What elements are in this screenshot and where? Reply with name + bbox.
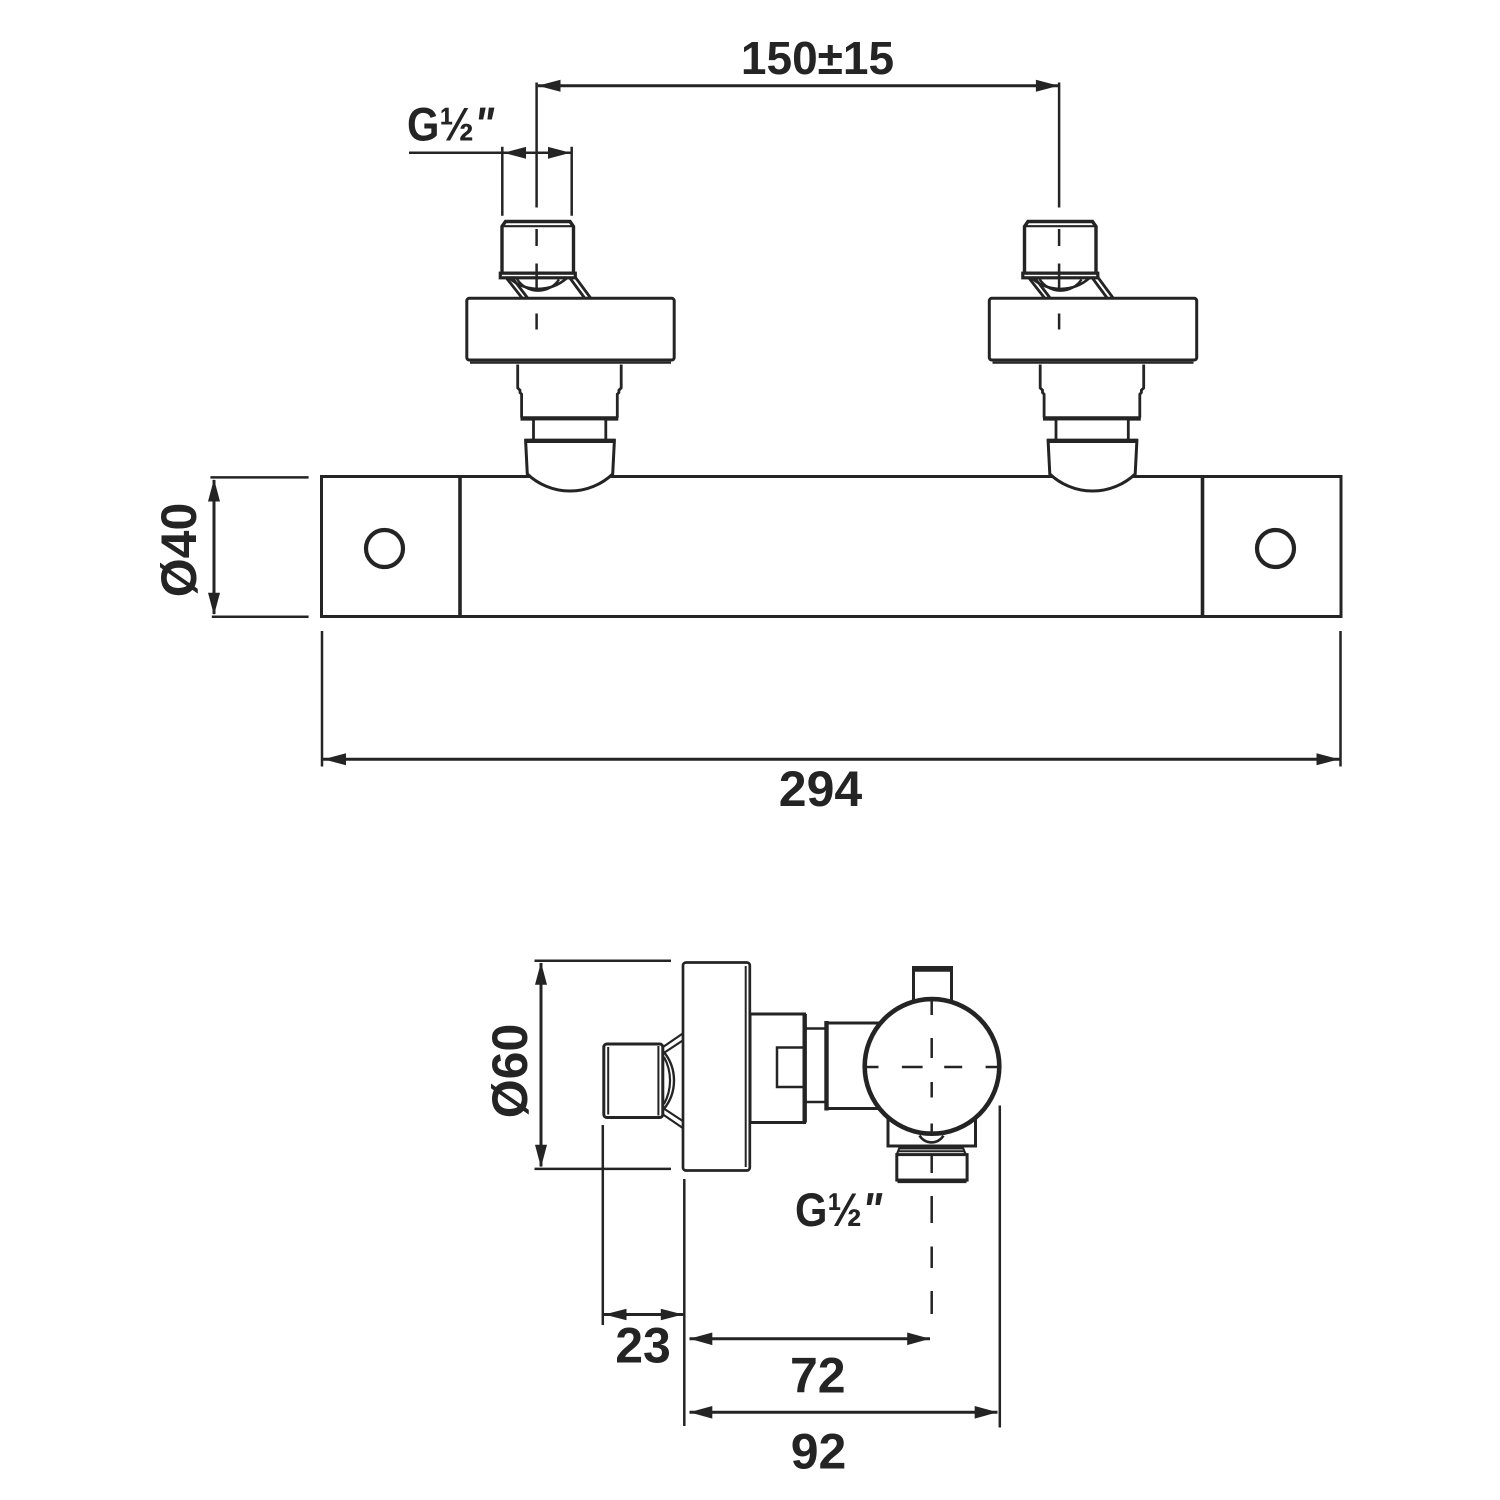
svg-text:Ø40: Ø40 bbox=[151, 503, 207, 598]
dimension 72 bbox=[690, 1333, 931, 1404]
right inlet connector assembly bbox=[989, 83, 1196, 492]
left end-cap divider bbox=[458, 478, 462, 615]
bar body (front view, 294mm bar) bbox=[322, 477, 1342, 617]
dimension G1/2 top bbox=[407, 98, 572, 216]
neck between body and valve block bbox=[805, 1027, 826, 1030]
dimension Ø60 bbox=[482, 961, 671, 1169]
svg-text:294: 294 bbox=[779, 761, 863, 817]
cone and ball joint side view bbox=[663, 1033, 684, 1047]
left inlet connector assembly bbox=[467, 83, 674, 492]
right end-cap divider bbox=[1201, 478, 1205, 615]
side nut bbox=[604, 1044, 663, 1118]
ball joint arcs bbox=[509, 278, 568, 289]
svg-text:G½": G½" bbox=[407, 98, 495, 151]
svg-text:Ø60: Ø60 bbox=[482, 1024, 538, 1119]
centerline dashes bbox=[535, 229, 538, 246]
150 dim extension line bbox=[535, 83, 538, 208]
svg-text:23: 23 bbox=[615, 1318, 671, 1374]
knob top button bbox=[914, 968, 952, 1002]
outlet chamfer band bbox=[900, 1147, 962, 1150]
cone slant lines right bbox=[570, 278, 586, 299]
svg-text:92: 92 bbox=[791, 1424, 847, 1480]
wall flange bbox=[467, 298, 674, 360]
dimension 92 bbox=[690, 1106, 1000, 1480]
wall plate Ø60 bbox=[683, 963, 750, 1171]
G1/2 thread nut bbox=[502, 222, 574, 274]
neck bbox=[534, 419, 606, 441]
dimension Ø40 bbox=[151, 477, 309, 616]
svg-text:72: 72 bbox=[790, 1348, 846, 1404]
knob crosshair horizontal bbox=[866, 1066, 997, 1069]
bottom cap over bar bbox=[526, 441, 615, 491]
ball dish under knob bbox=[920, 1136, 944, 1143]
body notch bbox=[777, 1048, 803, 1088]
outlet centerline vertical bbox=[930, 1000, 933, 1314]
outlet nut G1/2 bbox=[897, 1155, 967, 1181]
body behind plate bbox=[750, 1014, 805, 1123]
valve block bbox=[827, 1022, 881, 1025]
left screw hole bbox=[366, 530, 403, 567]
dimension 150±15 bbox=[538, 32, 1059, 92]
nut bottom lip bbox=[500, 273, 575, 278]
dimension 23 bbox=[603, 1125, 685, 1426]
right screw hole bbox=[1257, 530, 1294, 567]
svg-text:150±15: 150±15 bbox=[741, 32, 894, 84]
cone slant lines left bbox=[506, 278, 523, 299]
dimension 294 bbox=[322, 631, 1341, 817]
outlet housing bbox=[888, 1120, 976, 1147]
stepped body below flange bbox=[518, 365, 522, 418]
knob circle bbox=[865, 999, 1000, 1134]
svg-text:G½": G½" bbox=[795, 1183, 883, 1236]
